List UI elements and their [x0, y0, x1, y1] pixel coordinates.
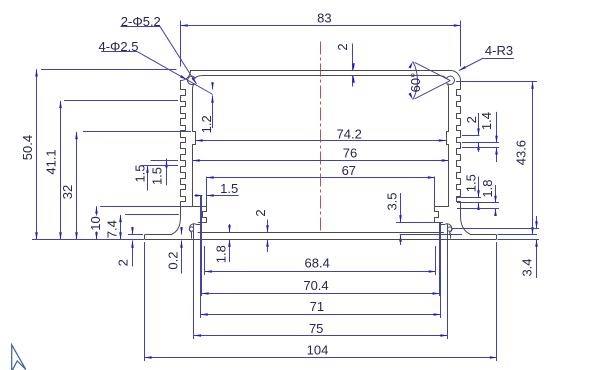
- bottom plate right end bead: [441, 224, 452, 239]
- profile: left wall fins + flange: [145, 81, 186, 240]
- svg-text:41.1: 41.1: [44, 149, 59, 174]
- dim 2 flange thickness (left): [132, 227, 134, 235]
- profile: bottom plate top surface: [198, 232, 444, 234]
- dim 75: [194, 335, 448, 337]
- profile: top plate inner surface: [204, 75, 439, 77]
- profile: right wall fins + flange: [457, 81, 497, 240]
- dim 1.4 right fin: [496, 112, 498, 143]
- dim 1.2: [212, 83, 214, 90]
- svg-text:10: 10: [88, 216, 103, 230]
- svg-text:68.4: 68.4: [305, 256, 330, 271]
- profile: top-left R3 corner: [181, 71, 191, 81]
- profile: right wall inner + steps: [435, 89, 449, 223]
- mouse cursor arrow: [12, 345, 26, 370]
- svg-text:3.5: 3.5: [385, 192, 400, 210]
- dim 74.2: [196, 140, 447, 142]
- svg-text:2: 2: [464, 116, 479, 123]
- dim 3.5: [400, 193, 402, 223]
- dim 3.4: [536, 216, 538, 228]
- svg-text:1.8: 1.8: [480, 180, 495, 198]
- svg-text:2: 2: [253, 209, 268, 216]
- svg-text:1.5: 1.5: [220, 181, 238, 196]
- svg-text:1.8: 1.8: [214, 245, 229, 263]
- profile: bottom surface: [146, 239, 496, 241]
- svg-text:70.4: 70.4: [303, 278, 328, 293]
- svg-text:1.5: 1.5: [133, 164, 148, 182]
- dim 83 top width: [181, 25, 462, 27]
- bottom plate left end bead (Φ2.5 channel): [189, 224, 201, 239]
- svg-text:76: 76: [343, 145, 357, 160]
- dim 1.8 left: [229, 224, 231, 233]
- svg-text:75: 75: [309, 321, 323, 336]
- dim 1.5 right fin: [478, 177, 480, 198]
- screw boss top-right: [447, 76, 455, 84]
- profile: top-right R3 corner: [451, 71, 461, 81]
- svg-text:67: 67: [342, 163, 356, 178]
- svg-text:3.4: 3.4: [520, 258, 535, 276]
- svg-text:0.2: 0.2: [166, 252, 181, 270]
- svg-text:43.6: 43.6: [514, 140, 529, 165]
- dim 68.4: [205, 271, 436, 273]
- svg-text:1.5: 1.5: [464, 174, 479, 192]
- dim 1.5 fin pitch pair (left): [147, 166, 149, 191]
- profile: left wall inner + steps: [193, 89, 207, 223]
- dim 2 bottom plate thickness: [267, 220, 269, 233]
- svg-text:2: 2: [115, 259, 130, 266]
- centerline (red dashed): [320, 42, 322, 234]
- dim 76: [193, 160, 450, 162]
- svg-text:71: 71: [310, 299, 324, 314]
- svg-text:74.2: 74.2: [337, 126, 362, 141]
- dim 71: [201, 314, 441, 316]
- svg-text:7.4: 7.4: [105, 220, 120, 238]
- profile: top plate outer surface: [191, 70, 452, 72]
- dim 7.4: [120, 215, 122, 240]
- svg-text:2: 2: [335, 43, 350, 50]
- dim 50.4 overall height: [36, 69, 38, 239]
- dim 10: [96, 206, 98, 215]
- dim 67: [207, 177, 436, 179]
- dim 2 right fin: [478, 113, 480, 136]
- dim 104: [145, 357, 498, 359]
- svg-text:1.2: 1.2: [199, 115, 214, 133]
- dim 1.8 right fin: [495, 185, 497, 203]
- svg-text:1.5: 1.5: [150, 167, 165, 185]
- svg-text:104: 104: [307, 342, 329, 357]
- dim 0.2: [181, 241, 183, 274]
- dim 43.6: [532, 82, 534, 235]
- svg-text:32: 32: [60, 185, 75, 199]
- svg-text:50.4: 50.4: [20, 135, 35, 160]
- dim 70.4: [201, 293, 439, 295]
- dim 32: [76, 132, 78, 240]
- angular dim 60deg: [415, 62, 451, 80]
- svg-text:4-R3: 4-R3: [485, 43, 513, 58]
- dim 2 plate thickness: [352, 44, 354, 71]
- svg-text:83: 83: [317, 11, 331, 26]
- screw boss top-left (2-Φ5.2 / 4-Φ2.5): [188, 76, 196, 84]
- dim 41.1: [60, 101, 62, 240]
- left bottom extension: [32, 239, 144, 241]
- svg-text:1.4: 1.4: [479, 112, 494, 130]
